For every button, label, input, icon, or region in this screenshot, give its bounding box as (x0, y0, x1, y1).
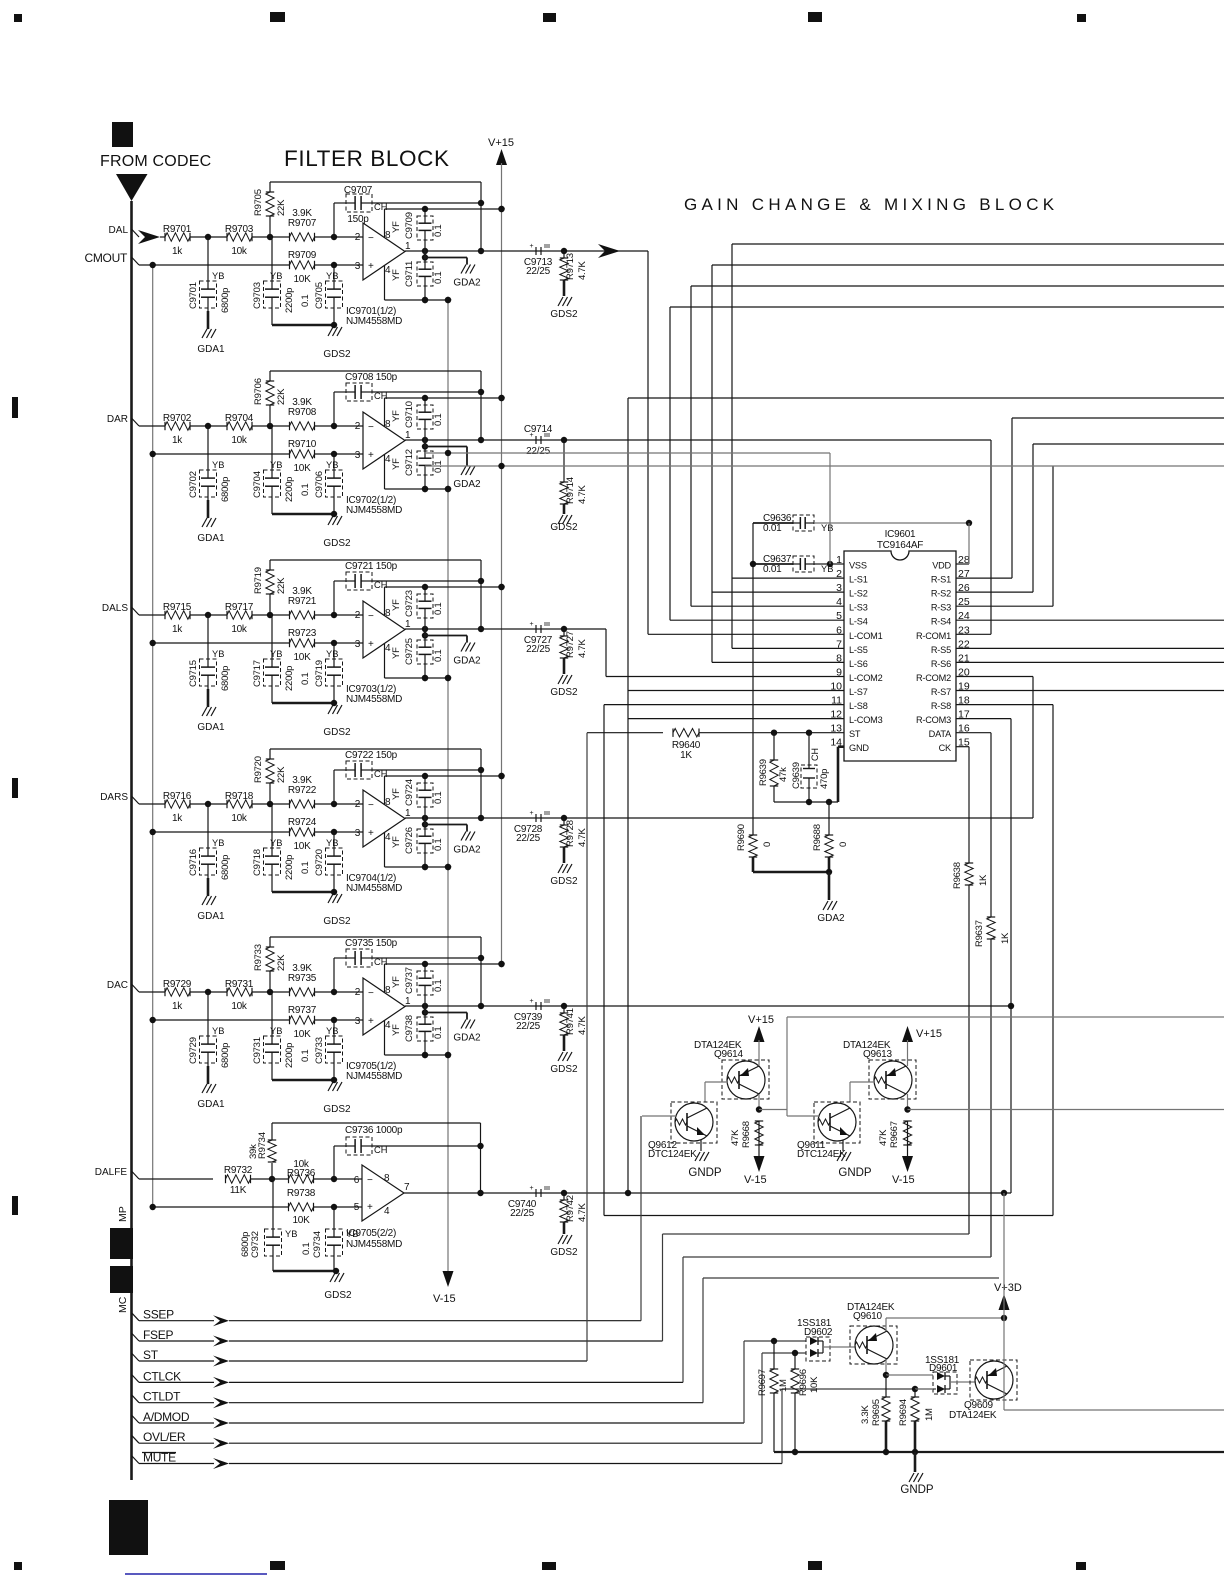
svg-text:2: 2 (355, 610, 361, 621)
svg-text:YB: YB (212, 271, 224, 281)
svg-text:10k: 10k (231, 813, 248, 824)
svg-text:C9714: C9714 (524, 424, 553, 435)
svg-text:R-S7: R-S7 (931, 687, 951, 697)
svg-text:R9638: R9638 (952, 862, 963, 889)
svg-text:CH: CH (374, 580, 387, 590)
svg-text:C9716: C9716 (188, 849, 199, 876)
svg-text:DALS: DALS (102, 603, 128, 614)
svg-text:C9720: C9720 (314, 849, 325, 876)
svg-text:1k: 1k (172, 435, 183, 446)
svg-text:C9724: C9724 (404, 779, 415, 806)
svg-text:YF: YF (391, 221, 402, 233)
svg-text:R9690: R9690 (736, 824, 747, 851)
svg-text:GDS2: GDS2 (550, 522, 578, 533)
svg-text:L-S3: L-S3 (849, 603, 868, 613)
svg-text:CH: CH (810, 748, 820, 761)
svg-text:R-S4: R-S4 (931, 617, 951, 627)
svg-text:GDS2: GDS2 (323, 349, 351, 360)
svg-text:4.7K: 4.7K (577, 639, 588, 658)
svg-text:0.1: 0.1 (300, 673, 311, 685)
svg-text:0.1: 0.1 (433, 792, 444, 804)
svg-text:R9732: R9732 (224, 1165, 253, 1176)
svg-text:C9735 150p: C9735 150p (345, 938, 398, 949)
svg-text:C9718: C9718 (252, 849, 263, 876)
svg-text:GDS2: GDS2 (323, 916, 351, 927)
svg-text:−: − (367, 1175, 373, 1186)
svg-text:L-COM1: L-COM1 (849, 631, 883, 641)
svg-text:22K: 22K (276, 388, 287, 405)
svg-text:YF: YF (391, 458, 402, 470)
svg-text:C9738: C9738 (404, 1015, 415, 1042)
svg-text:YB: YB (212, 1026, 224, 1036)
svg-text:10K: 10K (293, 274, 311, 285)
svg-text:0.1: 0.1 (433, 839, 444, 851)
svg-text:CTLDT: CTLDT (143, 1390, 181, 1404)
svg-text:C9707: C9707 (344, 185, 373, 196)
svg-text:2: 2 (355, 421, 361, 432)
svg-text:GDS2: GDS2 (550, 1247, 578, 1258)
svg-text:DATA: DATA (929, 729, 952, 739)
svg-text:1M: 1M (924, 1408, 935, 1421)
svg-text:3: 3 (355, 261, 361, 272)
svg-text:6800p: 6800p (220, 1043, 231, 1068)
svg-text:YF: YF (391, 1024, 402, 1036)
svg-text:0.1: 0.1 (433, 272, 444, 284)
svg-text:NJM4558MD: NJM4558MD (346, 316, 402, 327)
svg-text:C9703: C9703 (252, 282, 263, 309)
svg-text:22K: 22K (276, 199, 287, 216)
svg-text:GDS2: GDS2 (550, 1064, 578, 1075)
svg-text:2200p: 2200p (284, 855, 295, 880)
svg-text:2200p: 2200p (284, 288, 295, 313)
svg-text:1k: 1k (172, 246, 183, 257)
svg-text:L-S1: L-S1 (849, 575, 868, 585)
svg-text:YF: YF (391, 976, 402, 988)
svg-text:GDA2: GDA2 (453, 278, 481, 289)
svg-text:D9602: D9602 (804, 1327, 833, 1338)
svg-text:470p: 470p (819, 769, 830, 789)
svg-text:YB: YB (212, 838, 224, 848)
svg-text:YB: YB (326, 271, 338, 281)
svg-text:YB: YB (270, 1026, 282, 1036)
svg-text:R9722: R9722 (288, 785, 317, 796)
svg-text:ST: ST (143, 1348, 159, 1362)
svg-text:A/DMOD: A/DMOD (143, 1410, 190, 1424)
svg-text:Q9610: Q9610 (853, 1311, 882, 1322)
svg-text:10K: 10K (293, 841, 311, 852)
svg-text:NJM4558MD: NJM4558MD (346, 505, 402, 516)
svg-text:1: 1 (405, 241, 411, 252)
svg-text:R9721: R9721 (288, 596, 317, 607)
svg-text:47k: 47k (778, 767, 789, 782)
svg-text:R9735: R9735 (288, 973, 317, 984)
svg-text:R9705: R9705 (253, 189, 264, 216)
svg-text:1: 1 (405, 808, 411, 819)
svg-text:4.7K: 4.7K (577, 261, 588, 280)
svg-text:YB: YB (270, 649, 282, 659)
svg-text:R9667: R9667 (889, 1121, 900, 1148)
svg-text:0.1: 0.1 (301, 1243, 312, 1255)
svg-text:L-S5: L-S5 (849, 645, 868, 655)
svg-text:GDA1: GDA1 (197, 911, 225, 922)
svg-text:YB: YB (326, 838, 338, 848)
svg-text:R9695: R9695 (871, 1399, 882, 1426)
svg-text:YB: YB (326, 649, 338, 659)
svg-text:R-COM2: R-COM2 (916, 673, 951, 683)
svg-text:47K: 47K (730, 1129, 741, 1146)
svg-text:C9701: C9701 (188, 282, 199, 309)
svg-text:DALFE: DALFE (95, 1167, 128, 1178)
svg-text:C9717: C9717 (252, 660, 263, 687)
svg-text:C9734: C9734 (312, 1231, 323, 1258)
svg-text:C9719: C9719 (314, 660, 325, 687)
svg-text:1k: 1k (172, 813, 183, 824)
svg-text:YB: YB (270, 271, 282, 281)
svg-text:2200p: 2200p (284, 1043, 295, 1068)
svg-text:R9737: R9737 (288, 1005, 317, 1016)
svg-text:YB: YB (326, 1026, 338, 1036)
svg-text:V-15: V-15 (892, 1174, 915, 1186)
svg-text:L-S4: L-S4 (849, 617, 868, 627)
svg-text:GDS2: GDS2 (550, 309, 578, 320)
svg-text:R9713: R9713 (565, 253, 576, 280)
svg-text:2: 2 (355, 232, 361, 243)
svg-text:10K: 10K (293, 652, 311, 663)
svg-text:YF: YF (391, 599, 402, 611)
svg-text:DAR: DAR (107, 414, 128, 425)
svg-text:−: − (368, 611, 374, 622)
svg-text:L-S2: L-S2 (849, 589, 868, 599)
svg-text:1: 1 (405, 619, 411, 630)
svg-text:YB: YB (270, 838, 282, 848)
svg-text:YB: YB (212, 460, 224, 470)
svg-text:R9742: R9742 (565, 1195, 576, 1222)
svg-text:L-COM2: L-COM2 (849, 673, 883, 683)
svg-text:22/25: 22/25 (516, 1021, 540, 1032)
svg-text:+: + (368, 450, 374, 461)
svg-text:YF: YF (391, 836, 402, 848)
svg-text:6800p: 6800p (220, 477, 231, 502)
svg-text:0.1: 0.1 (433, 414, 444, 426)
svg-text:GDA2: GDA2 (453, 845, 481, 856)
svg-text:R-S3: R-S3 (931, 603, 951, 613)
svg-text:C9723: C9723 (404, 590, 415, 617)
svg-text:C9704: C9704 (252, 471, 263, 498)
svg-text:1: 1 (405, 430, 411, 441)
svg-text:R9738: R9738 (287, 1188, 316, 1199)
svg-text:22K: 22K (276, 766, 287, 783)
svg-text:+: + (368, 261, 374, 272)
svg-text:10K: 10K (293, 463, 311, 474)
svg-text:22/25: 22/25 (516, 833, 540, 844)
svg-text:2: 2 (355, 799, 361, 810)
svg-text:0.1: 0.1 (300, 484, 311, 496)
svg-text:0.1: 0.1 (433, 603, 444, 615)
svg-text:C9708 150p: C9708 150p (345, 372, 398, 383)
svg-text:GAIN CHANGE & MIXING BLOCK: GAIN CHANGE & MIXING BLOCK (684, 195, 1058, 214)
svg-text:11K: 11K (230, 1185, 247, 1196)
svg-text:YB: YB (346, 1229, 358, 1239)
svg-text:C9705: C9705 (314, 282, 325, 309)
svg-text:FSEP: FSEP (143, 1328, 173, 1342)
svg-text:C9710: C9710 (404, 401, 415, 428)
svg-text:22/25: 22/25 (510, 1208, 534, 1219)
svg-text:YF: YF (391, 269, 402, 281)
svg-text:CK: CK (939, 743, 952, 753)
svg-text:−: − (368, 422, 374, 433)
svg-text:+: + (530, 243, 534, 250)
svg-text:VDD: VDD (932, 561, 951, 571)
svg-text:47K: 47K (878, 1129, 889, 1146)
svg-text:3.3K: 3.3K (860, 1405, 871, 1424)
svg-text:GDA1: GDA1 (197, 533, 225, 544)
svg-text:DARS: DARS (100, 792, 128, 803)
svg-text:6800p: 6800p (220, 666, 231, 691)
svg-text:0: 0 (838, 842, 849, 847)
svg-text:YF: YF (391, 647, 402, 659)
svg-text:3: 3 (355, 828, 361, 839)
svg-text:L-S7: L-S7 (849, 687, 868, 697)
svg-text:L-S8: L-S8 (849, 701, 868, 711)
svg-text:4.7K: 4.7K (577, 828, 588, 847)
svg-text:0.1: 0.1 (433, 225, 444, 237)
svg-text:TC9164AF: TC9164AF (877, 540, 923, 551)
svg-text:2200p: 2200p (284, 666, 295, 691)
svg-text:YF: YF (391, 410, 402, 422)
svg-text:SSEP: SSEP (143, 1308, 174, 1322)
svg-text:V+15: V+15 (748, 1014, 774, 1026)
svg-text:C9736 1000p: C9736 1000p (345, 1125, 403, 1136)
svg-text:R9724: R9724 (288, 817, 317, 828)
svg-text:22K: 22K (276, 577, 287, 594)
svg-text:YF: YF (391, 788, 402, 800)
svg-text:GDS2: GDS2 (323, 538, 351, 549)
svg-text:NJM4558MD: NJM4558MD (346, 694, 402, 705)
svg-text:GNDP: GNDP (688, 1167, 722, 1179)
svg-text:22/25: 22/25 (526, 446, 550, 457)
svg-text:4.7K: 4.7K (577, 485, 588, 504)
svg-text:6800p: 6800p (220, 288, 231, 313)
svg-text:C9729: C9729 (188, 1037, 199, 1064)
svg-text:C9732: C9732 (250, 1231, 261, 1258)
svg-text:R-S1: R-S1 (931, 575, 951, 585)
svg-text:L-COM3: L-COM3 (849, 715, 883, 725)
svg-text:ST: ST (849, 729, 861, 739)
svg-text:+: + (367, 1202, 373, 1213)
svg-text:R9708: R9708 (288, 407, 317, 418)
svg-text:+: + (530, 621, 534, 628)
svg-text:R9639: R9639 (758, 759, 769, 786)
svg-text:R9706: R9706 (253, 378, 264, 405)
svg-text:R9688: R9688 (812, 824, 823, 851)
svg-text:OVL/ER: OVL/ER (143, 1430, 186, 1444)
svg-text:22K: 22K (276, 954, 287, 971)
svg-text:8: 8 (384, 1173, 390, 1184)
svg-text:Q9613: Q9613 (863, 1049, 892, 1060)
svg-text:V+15: V+15 (916, 1028, 942, 1040)
svg-text:R9696: R9696 (798, 1369, 809, 1396)
svg-text:C9712: C9712 (404, 449, 415, 476)
svg-text:MC: MC (117, 1296, 129, 1313)
svg-text:10k: 10k (231, 624, 248, 635)
svg-text:FROM CODEC: FROM CODEC (100, 153, 211, 170)
svg-text:FILTER BLOCK: FILTER BLOCK (284, 146, 450, 171)
svg-text:+: + (368, 639, 374, 650)
svg-text:C9639: C9639 (791, 762, 802, 789)
svg-text:R-COM3: R-COM3 (916, 715, 951, 725)
svg-text:R-S2: R-S2 (931, 589, 951, 599)
svg-text:V+3D: V+3D (994, 1282, 1022, 1294)
svg-text:NJM4558MD: NJM4558MD (346, 1071, 402, 1082)
svg-text:GDS2: GDS2 (323, 727, 351, 738)
svg-text:R9697: R9697 (757, 1369, 768, 1396)
svg-text:7: 7 (404, 1182, 410, 1193)
svg-text:R-S6: R-S6 (931, 659, 951, 669)
svg-text:0: 0 (762, 842, 773, 847)
svg-text:1M: 1M (778, 1379, 789, 1392)
svg-text:C9726: C9726 (404, 827, 415, 854)
svg-text:0.1: 0.1 (433, 980, 444, 992)
svg-text:−: − (368, 988, 374, 999)
svg-text:4.7K: 4.7K (577, 1203, 588, 1222)
svg-text:R9736: R9736 (287, 1168, 316, 1179)
svg-text:CMOUT: CMOUT (85, 251, 128, 265)
svg-text:22/25: 22/25 (526, 266, 550, 277)
svg-text:1K: 1K (1000, 932, 1011, 944)
svg-text:2: 2 (355, 987, 361, 998)
svg-text:C9721 150p: C9721 150p (345, 561, 398, 572)
svg-text:GND: GND (849, 743, 869, 753)
svg-text:L-S6: L-S6 (849, 659, 868, 669)
svg-text:DTC124EK: DTC124EK (648, 1149, 697, 1160)
svg-text:GDS2: GDS2 (323, 1104, 351, 1115)
svg-text:+: + (368, 1016, 374, 1027)
svg-text:R9723: R9723 (288, 628, 317, 639)
svg-text:R9734: R9734 (257, 1132, 268, 1159)
svg-text:GDA2: GDA2 (453, 1033, 481, 1044)
svg-text:−: − (368, 233, 374, 244)
svg-text:R9728: R9728 (565, 820, 576, 847)
svg-text:0.01: 0.01 (763, 523, 782, 534)
svg-text:V-15: V-15 (433, 1293, 456, 1305)
svg-text:VSS: VSS (849, 561, 867, 571)
svg-text:+: + (530, 1185, 534, 1192)
svg-text:NJM4558MD: NJM4558MD (346, 883, 402, 894)
svg-text:R-S5: R-S5 (931, 645, 951, 655)
svg-text:C9725: C9725 (404, 638, 415, 665)
svg-text:150p: 150p (347, 214, 369, 225)
svg-text:GDA1: GDA1 (197, 344, 225, 355)
svg-text:0.1: 0.1 (300, 862, 311, 874)
svg-text:GNDP: GNDP (900, 1484, 934, 1496)
svg-text:R9668: R9668 (741, 1121, 752, 1148)
svg-text:10k: 10k (231, 246, 248, 257)
svg-text:R9694: R9694 (898, 1399, 909, 1426)
svg-text:V+15: V+15 (488, 137, 514, 149)
svg-text:C9722 150p: C9722 150p (345, 750, 398, 761)
svg-text:R9714: R9714 (565, 477, 576, 504)
svg-text:R-S8: R-S8 (931, 701, 951, 711)
svg-text:1k: 1k (172, 624, 183, 635)
svg-text:GDA1: GDA1 (197, 1099, 225, 1110)
svg-text:C9711: C9711 (404, 261, 415, 287)
svg-text:+: + (530, 810, 534, 817)
svg-text:R9637: R9637 (974, 920, 985, 947)
svg-text:GDA2: GDA2 (453, 656, 481, 667)
svg-text:R9709: R9709 (288, 250, 317, 261)
svg-text:YB: YB (285, 1229, 297, 1239)
svg-text:0.1: 0.1 (433, 1027, 444, 1039)
svg-text:DTA124EK: DTA124EK (949, 1410, 997, 1421)
svg-text:GDA1: GDA1 (197, 722, 225, 733)
svg-text:3: 3 (355, 1016, 361, 1027)
svg-text:YB: YB (326, 460, 338, 470)
svg-text:GDA2: GDA2 (817, 913, 845, 924)
svg-text:R9710: R9710 (288, 439, 317, 450)
svg-text:CH: CH (374, 1145, 387, 1155)
svg-text:10K: 10K (293, 1029, 311, 1040)
svg-text:2200p: 2200p (284, 477, 295, 502)
svg-text:10K: 10K (292, 1215, 310, 1226)
svg-text:C9733: C9733 (314, 1037, 325, 1064)
svg-text:YB: YB (270, 460, 282, 470)
svg-text:R9741: R9741 (565, 1008, 576, 1035)
svg-text:R9707: R9707 (288, 218, 317, 229)
svg-text:CTLCK: CTLCK (143, 1369, 181, 1383)
svg-text:10K: 10K (809, 1376, 820, 1393)
svg-text:3: 3 (355, 639, 361, 650)
svg-text:0.1: 0.1 (433, 650, 444, 662)
svg-text:1K: 1K (978, 874, 989, 886)
svg-text:GDS2: GDS2 (324, 1290, 352, 1301)
svg-text:3: 3 (355, 450, 361, 461)
svg-text:YB: YB (212, 649, 224, 659)
svg-text:10k: 10k (231, 1001, 248, 1012)
svg-text:GDA2: GDA2 (453, 479, 481, 490)
svg-text:10k: 10k (231, 435, 248, 446)
svg-text:1K: 1K (680, 750, 692, 761)
svg-text:MP: MP (117, 1206, 129, 1222)
svg-text:IC9601: IC9601 (885, 529, 916, 540)
svg-text:+: + (368, 828, 374, 839)
svg-text:GDS2: GDS2 (550, 876, 578, 887)
svg-text:YB: YB (821, 523, 833, 533)
svg-text:R9719: R9719 (253, 567, 264, 594)
svg-text:1: 1 (405, 996, 411, 1007)
svg-text:CH: CH (374, 391, 387, 401)
svg-text:C9709: C9709 (404, 212, 415, 239)
svg-text:CH: CH (374, 202, 387, 212)
svg-text:+: + (530, 998, 534, 1005)
svg-text:CH: CH (374, 957, 387, 967)
svg-text:R9720: R9720 (253, 756, 264, 783)
svg-text:NJM4558MD: NJM4558MD (346, 1239, 402, 1250)
svg-text:R-COM1: R-COM1 (916, 631, 951, 641)
svg-text:C9702: C9702 (188, 471, 199, 498)
svg-text:GNDP: GNDP (838, 1167, 872, 1179)
svg-text:0.1: 0.1 (300, 1050, 311, 1062)
svg-text:0.01: 0.01 (763, 564, 782, 575)
svg-text:CH: CH (374, 769, 387, 779)
svg-text:0.1: 0.1 (433, 461, 444, 473)
svg-text:C9706: C9706 (314, 471, 325, 498)
svg-text:6: 6 (354, 1175, 360, 1186)
svg-text:C9715: C9715 (188, 660, 199, 687)
svg-text:C9737: C9737 (404, 967, 415, 994)
svg-text:V-15: V-15 (744, 1174, 767, 1186)
svg-text:6800p: 6800p (220, 855, 231, 880)
svg-text:DAC: DAC (107, 980, 128, 991)
